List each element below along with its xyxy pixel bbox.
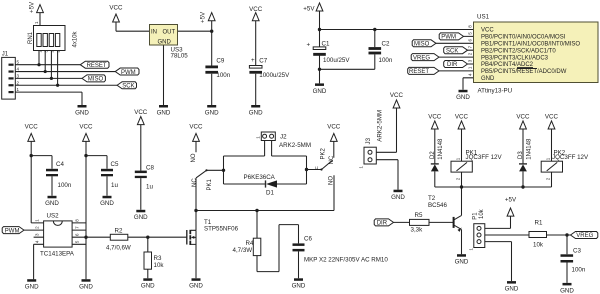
svg-text:100n: 100n: [572, 267, 586, 274]
svg-text:VCC: VCC: [109, 5, 123, 12]
svg-text:GND: GND: [134, 214, 148, 221]
svg-text:JQC3FF 12V: JQC3FF 12V: [466, 154, 503, 161]
svg-text:GND: GND: [391, 194, 405, 201]
svg-text:+: +: [251, 57, 255, 64]
svg-text:VCC: VCC: [428, 114, 442, 121]
svg-text:+5V: +5V: [303, 6, 315, 13]
svg-text:C7: C7: [259, 58, 267, 65]
svg-text:ATtiny13-PU: ATtiny13-PU: [478, 88, 513, 95]
svg-text:1N4148: 1N4148: [438, 138, 444, 160]
svg-text:PB5/PCINT5/RESET/ADC0/DW: PB5/PCINT5/RESET/ADC0/DW: [481, 69, 567, 75]
svg-text:R1: R1: [535, 220, 543, 227]
svg-text:R3: R3: [154, 255, 162, 262]
svg-text:GND: GND: [455, 259, 469, 266]
svg-text:C8: C8: [146, 165, 154, 172]
svg-text:100u/25V: 100u/25V: [323, 57, 350, 64]
svg-text:IN: IN: [151, 30, 157, 36]
svg-text:PB2/PCINT2/SCK/ADC1/T0: PB2/PCINT2/SCK/ADC1/T0: [481, 48, 556, 54]
svg-text:NO: NO: [328, 176, 334, 185]
svg-text:10k: 10k: [479, 208, 485, 219]
svg-text:C9: C9: [216, 58, 224, 65]
svg-text:C2: C2: [382, 41, 390, 48]
svg-text:R4: R4: [246, 240, 254, 247]
svg-text:D1: D1: [266, 190, 274, 197]
svg-text:SCK: SCK: [446, 48, 458, 54]
svg-text:VCC: VCC: [25, 123, 39, 130]
svg-text:PB0/PCINT0/AIN0/OC0A/MOSI: PB0/PCINT0/AIN0/OC0A/MOSI: [481, 35, 566, 41]
svg-text:10k: 10k: [533, 242, 544, 249]
svg-text:PB1/PCINT1/AIN1/OC0B/INT0/MISO: PB1/PCINT1/AIN1/OC0B/INT0/MISO: [481, 42, 580, 48]
svg-text:100n: 100n: [58, 182, 72, 189]
svg-text:4x10k: 4x10k: [73, 30, 79, 47]
svg-text:US2: US2: [47, 213, 60, 220]
svg-text:RESET: RESET: [409, 69, 429, 75]
svg-text:1u: 1u: [111, 182, 118, 189]
svg-text:US1: US1: [477, 14, 490, 21]
svg-text:P1: P1: [473, 212, 479, 220]
svg-text:VCC: VCC: [516, 114, 530, 121]
svg-text:GND: GND: [25, 284, 39, 291]
svg-text:DIR: DIR: [377, 221, 388, 227]
svg-text:P6KE36CA: P6KE36CA: [244, 174, 276, 181]
svg-text:10k: 10k: [154, 262, 165, 269]
svg-text:GND: GND: [205, 109, 219, 116]
svg-text:GND: GND: [100, 200, 114, 207]
svg-text:PB3/PCINT3/CLKI/ADC3: PB3/PCINT3/CLKI/ADC3: [481, 55, 549, 61]
svg-text:C3: C3: [573, 248, 581, 255]
svg-text:78L05: 78L05: [171, 52, 189, 59]
svg-text:VCC: VCC: [189, 123, 203, 130]
svg-text:1000u/25V: 1000u/25V: [259, 72, 290, 79]
svg-text:VCC: VCC: [545, 114, 559, 121]
svg-text:C6: C6: [304, 236, 312, 243]
svg-text:R5: R5: [415, 212, 423, 219]
svg-text:GND: GND: [141, 283, 155, 290]
svg-text:PK1: PK1: [207, 178, 213, 190]
svg-text:R2: R2: [115, 227, 123, 234]
svg-text:+5V: +5V: [200, 11, 207, 23]
svg-text:GND: GND: [75, 109, 89, 116]
svg-text:GND: GND: [313, 88, 327, 95]
svg-text:GND: GND: [45, 200, 59, 207]
svg-text:GND: GND: [157, 109, 171, 116]
svg-text:GND: GND: [560, 287, 574, 294]
svg-text:GND: GND: [79, 284, 93, 291]
svg-text:VCC: VCC: [455, 114, 469, 121]
svg-text:J2: J2: [280, 134, 287, 141]
svg-text:NC: NC: [192, 178, 198, 187]
svg-text:+5V: +5V: [29, 1, 36, 13]
svg-text:PWM: PWM: [121, 70, 136, 76]
svg-text:VCC: VCC: [79, 123, 93, 130]
svg-text:1u: 1u: [146, 184, 153, 191]
svg-text:ARK2-5MM: ARK2-5MM: [279, 142, 311, 149]
svg-text:VCC: VCC: [134, 109, 148, 116]
svg-text:DIR: DIR: [447, 62, 458, 68]
svg-text:D3: D3: [518, 151, 524, 159]
svg-text:1N4148: 1N4148: [526, 138, 532, 160]
svg-text:C4: C4: [56, 161, 64, 168]
svg-text:ARK2-5MM: ARK2-5MM: [376, 110, 383, 142]
svg-text:4,7/0,6W: 4,7/0,6W: [106, 245, 131, 252]
svg-text:TC1413EPA: TC1413EPA: [40, 251, 75, 258]
svg-text:J3: J3: [365, 137, 372, 144]
svg-text:PWM: PWM: [5, 228, 20, 234]
svg-text:MKP X2 22NF/305V AC RM10: MKP X2 22NF/305V AC RM10: [304, 257, 388, 264]
svg-text:GND: GND: [292, 283, 306, 290]
svg-text:RN1: RN1: [28, 31, 34, 44]
svg-text:100n: 100n: [379, 57, 393, 64]
svg-text:4,7/3W: 4,7/3W: [233, 247, 253, 254]
svg-text:OUT: OUT: [163, 30, 176, 36]
svg-text:NC: NC: [329, 155, 335, 164]
svg-text:PK2: PK2: [321, 147, 327, 159]
svg-text:BC546: BC546: [428, 202, 447, 209]
svg-text:GND: GND: [158, 39, 172, 45]
svg-text:STP55NF06: STP55NF06: [204, 226, 239, 233]
svg-text:VCC: VCC: [390, 92, 404, 99]
svg-text:PWM: PWM: [441, 35, 456, 41]
svg-text:VREG: VREG: [576, 233, 593, 239]
svg-text:MISO: MISO: [88, 77, 104, 83]
svg-text:SCK: SCK: [122, 83, 134, 89]
svg-text:VREG: VREG: [413, 55, 430, 61]
svg-text:J1: J1: [2, 52, 9, 58]
svg-text:C1: C1: [322, 41, 330, 48]
svg-text:+5V: +5V: [505, 196, 517, 203]
svg-text:C5: C5: [111, 161, 119, 168]
svg-text:JQC3FF 12V: JQC3FF 12V: [552, 154, 589, 161]
svg-text:GND: GND: [505, 286, 519, 293]
svg-text:RESET: RESET: [87, 63, 107, 69]
svg-text:GND: GND: [189, 283, 203, 290]
svg-text:VCC: VCC: [481, 28, 494, 34]
svg-text:3,3k: 3,3k: [411, 227, 424, 234]
svg-text:VCC: VCC: [327, 123, 341, 130]
svg-text:NO: NO: [191, 153, 197, 162]
svg-text:VCC: VCC: [249, 6, 263, 13]
svg-text:+: +: [307, 42, 311, 49]
svg-text:100n: 100n: [216, 72, 230, 79]
svg-text:GND: GND: [481, 76, 495, 82]
svg-text:D2: D2: [430, 151, 436, 159]
svg-text:GND: GND: [249, 109, 263, 116]
svg-text:GND: GND: [456, 94, 470, 101]
svg-text:MISO: MISO: [414, 42, 430, 48]
